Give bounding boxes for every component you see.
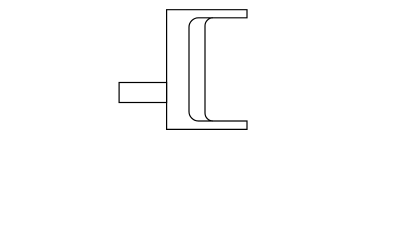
inner bend line — [205, 18, 213, 121]
outer C-channel profile — [167, 10, 247, 130]
left tab rectangle — [119, 83, 167, 103]
